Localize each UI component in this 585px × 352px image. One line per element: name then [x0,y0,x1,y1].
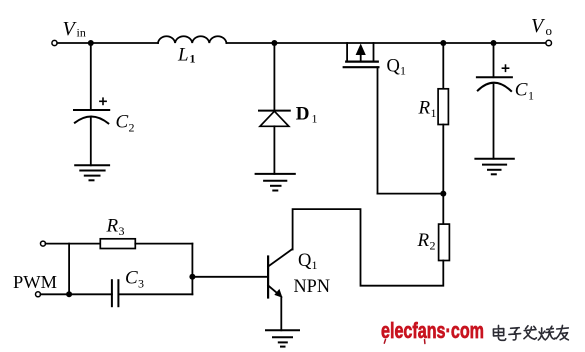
terminal Vin [52,40,57,45]
svg-text:1: 1 [312,258,318,272]
svg-text:R: R [418,98,431,119]
resistor R1 [438,89,448,125]
ground under D1 [256,174,295,191]
svg-text:1: 1 [528,89,534,103]
wire C2 to ground [90,118,92,166]
resistor R2 [439,224,450,260]
svg-text:C: C [125,268,138,289]
wire Q1 gate down to R1/R2 node [377,67,379,193]
wire C1 to ground [493,85,495,159]
svg-text:1: 1 [400,64,406,78]
wire PWM top to R3 [46,243,101,245]
svg-text:Q: Q [387,57,401,77]
wire C2 branch [90,43,92,110]
svg-text:R: R [106,216,119,237]
plus sign of C1 [502,64,510,72]
svg-text:3: 3 [119,224,125,238]
svg-text:L: L [177,45,189,66]
capacitor C2 [74,110,109,123]
resistor R3 [100,239,135,249]
svg-text:C: C [116,112,129,133]
transistor Q1 MOSFET [344,43,379,67]
wire PWM bottom to C3 [41,293,112,295]
capacitor C3 [112,280,119,306]
transistor Q1 NPN [268,249,292,297]
wire D1 branch [273,43,275,111]
node R1/R2 junction [440,191,446,197]
node junction at R1 tap [440,40,446,46]
ground under C1 [475,159,513,175]
node junction at C2 tap [88,40,94,46]
svg-text:elecfans·com: elecfans·com [381,318,484,343]
wire C3 to right rail [118,293,192,295]
svg-text:NPN: NPN [294,276,331,297]
terminal PWM top [41,241,46,246]
logo Chinese 电子发烧友 [493,325,568,340]
svg-text:2: 2 [129,121,135,135]
wire top rail Vin to L1 [57,42,158,44]
svg-text:3: 3 [138,277,144,291]
wire D1 to ground [273,126,275,174]
svg-text:R: R [417,230,430,251]
wire base drive to Q1 base [192,276,268,278]
svg-text:Q: Q [298,251,312,271]
terminal PWM bottom [36,292,41,297]
svg-text:1: 1 [312,112,318,126]
wire top rail L1 to Vo terminal [226,42,546,44]
svg-text:1: 1 [190,52,196,66]
wire C1 branch [493,43,495,77]
logo accent marks [384,340,425,344]
wire R1 branch [442,43,444,89]
wire R1 to node [442,125,444,225]
inductor L1 [158,36,226,43]
svg-text:2: 2 [430,239,436,253]
node junction at D1 tap [271,40,277,46]
diode D1 [259,110,290,112]
plus sign of C2 [99,97,107,105]
wire R2 bottom to NPN collector [293,209,444,286]
ground under C2 [75,165,109,180]
svg-text:1: 1 [431,106,437,120]
node junction base drive [189,274,195,280]
svg-text:D: D [296,104,310,125]
svg-text:C: C [515,80,528,101]
svg-text:PWM: PWM [13,272,57,292]
node junction at C1 tap [491,40,497,46]
svg-text:in: in [77,26,86,40]
svg-text:o: o [546,23,553,38]
node junction on bottom PWM wire [66,291,72,297]
wire NPN emitter to ground [280,297,282,330]
terminal Vo [546,40,552,46]
wire vertical tie between PWM rails [68,244,70,295]
wire right rail down [191,244,193,295]
capacitor C1 [477,77,512,91]
wire R3 to right rail [135,243,192,245]
ground under NPN emitter [266,330,299,346]
